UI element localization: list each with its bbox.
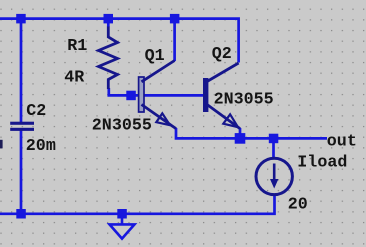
junction Iload at out rail — [269, 134, 279, 144]
wire R1 top stub — [107, 19, 110, 27]
ground — [110, 214, 135, 239]
svg-text:R1: R1 — [67, 37, 87, 56]
junction Q2 emitter at out rail — [235, 133, 246, 144]
capacitor C2 bottom plate — [10, 128, 34, 131]
wire R1 bottom to base rail — [109, 88, 204, 95]
current source arrow shaft — [273, 164, 276, 183]
transistor Q2 base bar — [203, 78, 208, 112]
transistor Q1 emitter stroke — [142, 105, 177, 129]
wire bottom rail with riser to Iload — [0, 195, 275, 214]
svg-text:C2: C2 — [26, 102, 46, 121]
junction R1 top — [104, 14, 114, 24]
transistor Q1 base bar — [139, 77, 144, 112]
svg-text:20m: 20m — [26, 137, 56, 156]
capacitor C2 top plate — [10, 122, 34, 125]
wire top rail with drop to Q2 collector — [0, 19, 239, 63]
wire out rail from Q1 emitter — [176, 128, 327, 138]
wire C2 to bottom rail — [20, 130, 23, 214]
transistor Q2 emitter arrow — [223, 114, 238, 127]
junction C2 at bottom rail — [16, 209, 26, 219]
svg-text:20: 20 — [288, 195, 308, 214]
current source arrowhead — [270, 179, 278, 189]
wire Q1 collector drop — [173, 19, 176, 61]
transistor Q2 emitter stroke — [207, 105, 240, 129]
svg-text:2N3055: 2N3055 — [214, 91, 274, 110]
transistor Q1 collector stroke — [142, 61, 175, 82]
wire Iload top lead — [272, 138, 275, 158]
junction supply top left — [16, 14, 26, 24]
resistor R1 — [99, 27, 118, 90]
svg-text:4R: 4R — [64, 68, 84, 87]
junction Q1 base — [126, 91, 136, 101]
svg-text:2N3055: 2N3055 — [92, 117, 152, 136]
cut-off text fragment at left edge — [0, 140, 3, 149]
current source Iload circle — [256, 158, 292, 194]
junction ground at bottom rail — [117, 209, 127, 219]
wire left supply vertical upper to C2 — [20, 17, 23, 123]
svg-text:out: out — [327, 132, 357, 151]
svg-text:Q2: Q2 — [212, 45, 232, 64]
svg-text:Q1: Q1 — [145, 47, 165, 66]
svg-text:Iload: Iload — [297, 153, 347, 172]
junction Q1 collector top rail — [170, 14, 180, 24]
transistor Q1 emitter arrow — [156, 113, 170, 125]
wire Q2 emitter to out rail — [239, 128, 242, 138]
transistor Q2 collector stroke — [207, 63, 239, 82]
